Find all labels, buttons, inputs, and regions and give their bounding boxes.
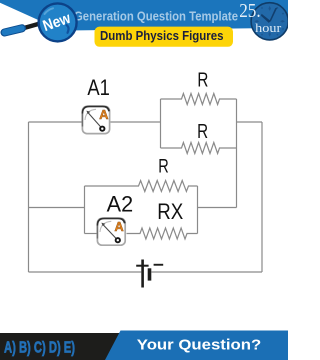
clock hands <box>269 7 278 22</box>
svg-text:25.: 25. <box>239 1 261 22</box>
battery long plate (+) <box>141 260 144 288</box>
wire: parallel block 2 left vertical <box>84 186 86 234</box>
wire: left outer vertical <box>28 122 30 272</box>
svg-text:R: R <box>197 69 208 92</box>
resistor R (top branch of block 2) <box>85 181 198 192</box>
resistor RX (bottom branch of block 2, after A2) <box>127 228 198 239</box>
ammeter A1 <box>82 106 109 133</box>
svg-text:A: A <box>99 107 109 122</box>
yellow subtitle box "Dumb Physics Figures" <box>95 27 234 47</box>
wire: parallel block 1 left vertical <box>160 99 162 148</box>
wire: block 2 exit to junction <box>198 207 237 209</box>
wire: bottom rail left of battery <box>29 271 142 273</box>
svg-text:R: R <box>197 120 208 143</box>
header blue band <box>0 0 288 31</box>
wire: parallel block 1 right vertical (down to mid-row junction) <box>236 99 238 208</box>
clock icon <box>251 3 288 40</box>
ammeter A2 <box>97 218 125 245</box>
svg-text:RX: RX <box>157 199 183 224</box>
svg-text:Dumb Physics Figures: Dumb Physics Figures <box>100 29 224 43</box>
wire: right outer vertical <box>261 122 263 272</box>
svg-text:Generation Question Template: Generation Question Template <box>74 9 238 23</box>
magnifier lens with "New" <box>39 3 77 41</box>
wire: bottom rail right of battery <box>151 271 262 273</box>
wire: A1 to parallel block 1 <box>111 121 161 123</box>
svg-text:A: A <box>114 219 124 234</box>
svg-text:A1: A1 <box>87 75 110 100</box>
resistor R (top branch of block 1) <box>161 94 237 105</box>
battery minus sign <box>154 264 164 266</box>
battery V1 <box>136 260 163 288</box>
bottom dark answer bar <box>0 333 288 360</box>
svg-text:A) B) C) D) E): A) B) C) D) E) <box>4 339 75 356</box>
battery short plate (-) <box>148 268 152 280</box>
wire: block 1 to outer right wire <box>237 121 263 123</box>
svg-text:Your Question?: Your Question? <box>137 336 262 353</box>
magnifier handle <box>5 24 41 33</box>
wire: parallel block 2 right vertical <box>197 186 199 234</box>
bottom blue question bar <box>105 331 288 360</box>
wire: top row from left node to A1 <box>29 121 82 123</box>
battery plus crossbar <box>136 265 148 267</box>
resistor R (second branch of block 1) <box>161 143 237 154</box>
svg-text:A2: A2 <box>107 192 134 217</box>
wire: block 2 bottom branch, left lead to A2 <box>85 233 97 235</box>
svg-text:R: R <box>158 156 169 178</box>
wire: middle row from left vertical to block 2 <box>29 207 85 209</box>
svg-text:hour: hour <box>255 20 282 35</box>
